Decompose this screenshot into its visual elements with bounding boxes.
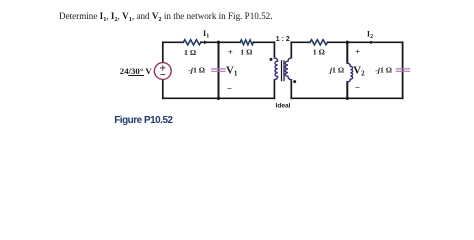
svg-text:V2: V2 xyxy=(353,65,365,78)
wire: transformer secondary vertical bottom xyxy=(290,80,292,99)
wire: top left segment source to R1 xyxy=(163,41,184,43)
wire: top right loop after R3 xyxy=(328,41,403,43)
voltage source VS 24/30 V xyxy=(154,63,171,80)
problem title text xyxy=(59,11,272,21)
current arrow I1 xyxy=(204,41,208,45)
inductor j1 coil xyxy=(347,63,352,82)
svg-text:+: + xyxy=(355,46,360,56)
wire: left edge above source xyxy=(162,42,164,62)
svg-text:V1: V1 xyxy=(226,64,238,77)
wire: left edge below source xyxy=(162,79,164,98)
wire: top to transformer primary xyxy=(253,41,274,43)
wire: right edge (capacitor -j1) xyxy=(402,42,404,98)
svg-text:24/30° V: 24/30° V xyxy=(120,66,153,76)
svg-text:I2: I2 xyxy=(367,29,373,40)
svg-text:−: − xyxy=(227,83,232,93)
svg-text:j1 Ω: j1 Ω xyxy=(328,66,344,75)
current arrow I2 xyxy=(370,41,374,44)
resistor R 1ohm (left) xyxy=(183,40,200,45)
transformer dot secondary xyxy=(293,80,296,83)
wire: transformer primary vertical bottom xyxy=(273,80,275,99)
wire: middle branch (capacitor -j1) xyxy=(218,42,220,98)
svg-text:-j1 Ω: -j1 Ω xyxy=(188,66,205,75)
wire: bottom of left loop xyxy=(163,97,275,99)
wire: inductor branch top xyxy=(346,42,348,63)
resistor 1ohm (second, left loop) xyxy=(240,40,253,45)
underline of phase angle xyxy=(129,75,144,77)
svg-text:−: − xyxy=(355,83,360,93)
svg-text:-j1 Ω: -j1 Ω xyxy=(375,66,392,75)
transformer U1 primary coil xyxy=(274,58,277,80)
transformer U1 secondary coil xyxy=(285,58,291,80)
svg-text:1 Ω: 1 Ω xyxy=(240,48,252,57)
transformer dot primary xyxy=(270,58,273,61)
capacitor -j1 (middle branch) plates xyxy=(212,69,225,71)
svg-text:+: + xyxy=(228,47,233,57)
svg-text:1 : 2: 1 : 2 xyxy=(276,36,290,43)
svg-text:1 Ω: 1 Ω xyxy=(184,48,196,57)
transformer core bars xyxy=(282,61,285,81)
wire: top of right loop to R3 xyxy=(291,41,310,43)
svg-text:Ideal: Ideal xyxy=(275,103,290,110)
svg-text:1 Ω: 1 Ω xyxy=(313,48,325,57)
wire: bottom of right loop xyxy=(291,97,402,99)
svg-text:I1: I1 xyxy=(203,29,209,40)
capacitor -j1 (right edge) plates xyxy=(396,69,409,71)
wire: transformer primary vertical top xyxy=(273,42,275,58)
wire: top between R1 and R2 xyxy=(201,41,240,43)
resistor 1ohm (right loop) xyxy=(310,40,327,45)
figure caption xyxy=(114,115,172,126)
junction dot bottom inductor xyxy=(346,97,349,100)
wire: inductor branch bottom xyxy=(346,82,348,98)
wire: transformer secondary vertical top xyxy=(290,42,292,58)
junction dot top inductor xyxy=(346,41,349,44)
junction dot top middle xyxy=(217,41,220,44)
junction dot bottom middle xyxy=(217,97,220,100)
